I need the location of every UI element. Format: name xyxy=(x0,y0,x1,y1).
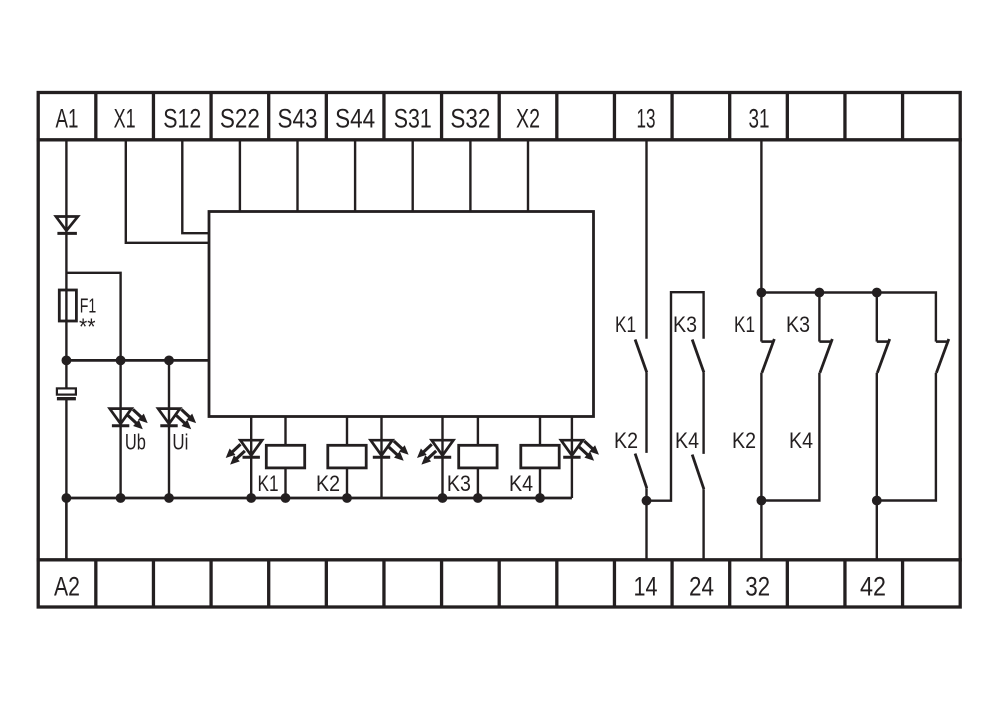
wire bus drop contact 2 xyxy=(818,293,820,342)
wire contact3 to node 42 xyxy=(876,373,878,501)
svg-text:S12: S12 xyxy=(163,104,201,134)
svg-text:K4: K4 xyxy=(675,428,699,453)
wire to terminal 32 xyxy=(760,501,762,560)
wire branch A1 to internal bus xyxy=(66,273,120,361)
wire drop LED3 xyxy=(441,417,443,499)
top terminal strip dividers xyxy=(96,93,903,140)
svg-text:S44: S44 xyxy=(335,104,375,134)
wire S31 xyxy=(412,140,414,213)
contact K1 (NC) xyxy=(761,340,774,343)
svg-text:Ui: Ui xyxy=(172,430,188,455)
wire bus drop contact 1 xyxy=(760,293,762,342)
svg-text:A2: A2 xyxy=(54,572,80,602)
wire X1 xyxy=(126,140,209,243)
svg-text:S43: S43 xyxy=(278,104,318,134)
bottom terminal strip separator line xyxy=(37,558,962,561)
top terminal strip separator line xyxy=(37,138,962,141)
wire drop relay coil K4 xyxy=(539,417,541,447)
wire contact1 to node 32 xyxy=(760,373,762,501)
LED4 xyxy=(561,440,599,461)
wire K2 contact to terminal 14 xyxy=(645,488,647,560)
wire terminal 13 down xyxy=(645,140,647,339)
wire drop relay coil K1 xyxy=(284,417,286,447)
wire drop LED2 xyxy=(380,417,382,499)
contact K3 (NO) xyxy=(692,340,704,373)
wire S44 xyxy=(354,140,356,213)
logic unit box xyxy=(209,212,594,417)
contact K2 (NO) xyxy=(635,454,647,489)
wire to terminal 42 xyxy=(876,501,878,560)
bottom terminal strip dividers xyxy=(96,560,903,607)
LED2 xyxy=(371,440,409,461)
svg-text:S31: S31 xyxy=(394,104,432,134)
svg-text:K2: K2 xyxy=(316,471,340,496)
wire contact2 down xyxy=(761,373,819,501)
wire drop relay coil K2 xyxy=(346,417,348,447)
svg-text:X2: X2 xyxy=(516,104,540,134)
svg-text:K3: K3 xyxy=(447,471,471,496)
svg-text:K4: K4 xyxy=(509,471,533,496)
diode V1 (on A1 line) xyxy=(56,217,78,234)
node dots internal bus xyxy=(62,356,72,366)
wire S43 xyxy=(296,140,298,213)
wire contact4 down xyxy=(877,373,936,501)
node dots bottom bus xyxy=(62,493,72,503)
relay coil K3 xyxy=(459,445,497,468)
wire S22 xyxy=(239,140,241,213)
svg-text:42: 42 xyxy=(860,572,886,602)
relay coil K4 xyxy=(521,445,559,468)
wire K4 contact to terminal 24 xyxy=(702,489,704,560)
node 14 junction xyxy=(642,496,652,506)
svg-text:K3: K3 xyxy=(786,312,810,337)
wire terminal 31 down xyxy=(760,140,762,293)
svg-text:S32: S32 xyxy=(450,104,490,134)
node 32 junction xyxy=(757,496,767,506)
svg-text:31: 31 xyxy=(749,104,770,134)
svg-text:K1: K1 xyxy=(615,312,636,337)
capacitor C1 (on A1 line) xyxy=(57,388,76,398)
LED Ub xyxy=(110,409,148,430)
wire S32 xyxy=(469,140,471,213)
wire between K1 and K2 contacts xyxy=(645,373,647,453)
relay coil K1 xyxy=(266,445,304,468)
svg-text:K1: K1 xyxy=(734,312,755,337)
svg-text:14: 14 xyxy=(634,572,658,602)
svg-text:Ub: Ub xyxy=(125,430,146,455)
fuse F1 xyxy=(59,290,76,321)
svg-text:K3: K3 xyxy=(673,312,697,337)
relay coil K2 xyxy=(328,445,366,468)
wire S12 xyxy=(182,140,209,233)
contact K4 (NO) xyxy=(692,455,704,490)
contact K2 second (NC) xyxy=(877,340,890,343)
svg-text:13: 13 xyxy=(637,104,656,134)
svg-text:K1: K1 xyxy=(258,471,279,496)
node 31 bus junctions xyxy=(757,288,767,298)
contact K4 second (NC) xyxy=(936,340,949,343)
wire LED Ui drop xyxy=(168,360,170,498)
wire LED Ub drop xyxy=(119,360,121,498)
enclosure frame xyxy=(38,93,960,608)
svg-text:32: 32 xyxy=(745,572,770,602)
LED3 xyxy=(417,440,453,464)
contact K3 (NC) xyxy=(819,340,832,343)
contact K1 (NO) xyxy=(635,340,647,373)
svg-text:K2: K2 xyxy=(614,428,638,453)
svg-text:S22: S22 xyxy=(220,104,260,134)
wire drop LED1 xyxy=(250,417,252,499)
wire drop LED4 xyxy=(571,417,573,499)
LED1 xyxy=(226,440,262,464)
svg-text:**: ** xyxy=(79,314,96,340)
wire A1 vertical xyxy=(65,140,67,560)
wire bus drop contact 3 xyxy=(876,293,878,342)
right section top bus xyxy=(761,293,936,342)
svg-text:X1: X1 xyxy=(114,104,136,134)
wire drop relay coil K3 xyxy=(477,417,479,447)
svg-text:K2: K2 xyxy=(732,428,756,453)
wire A2 xyxy=(65,498,67,560)
internal horizontal bus (to logic box) xyxy=(66,359,209,362)
svg-text:K4: K4 xyxy=(789,428,813,453)
LED Ui xyxy=(158,409,196,430)
wire branch to 24 chain xyxy=(647,292,704,501)
wire between K3 and K4 contacts xyxy=(702,373,704,454)
svg-text:24: 24 xyxy=(689,572,714,602)
svg-text:A1: A1 xyxy=(56,104,79,134)
bottom bus (0V) xyxy=(66,497,572,500)
node 42 junction xyxy=(872,496,882,506)
wire X2 xyxy=(527,140,529,213)
